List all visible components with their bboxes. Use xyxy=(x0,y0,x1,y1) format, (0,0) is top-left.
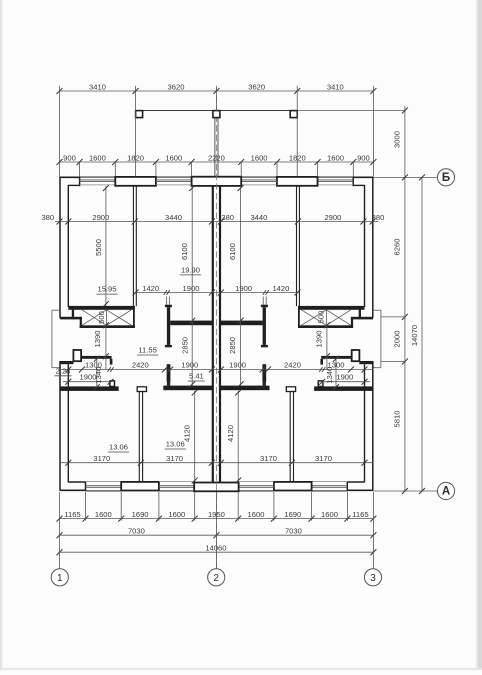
dim column right 3000-6260-2000-5810 xyxy=(404,107,406,492)
svg-text:19.90: 19.90 xyxy=(181,266,200,275)
svg-text:11.55: 11.55 xyxy=(138,346,156,355)
svg-text:1: 1 xyxy=(57,573,63,584)
canopy post left xyxy=(136,111,143,118)
dim row top 3410-3620 xyxy=(60,90,374,92)
svg-text:1900: 1900 xyxy=(181,361,198,370)
svg-text:1165: 1165 xyxy=(64,510,80,519)
svg-text:1900: 1900 xyxy=(183,284,200,293)
svg-text:3440: 3440 xyxy=(250,213,267,222)
svg-text:3000: 3000 xyxy=(392,131,401,148)
svg-text:2.23: 2.23 xyxy=(56,366,71,375)
wall pier top center 2220 xyxy=(192,177,242,186)
svg-text:380: 380 xyxy=(221,213,234,222)
svg-text:7030: 7030 xyxy=(285,527,302,536)
canopy edge line xyxy=(136,110,298,112)
svg-text:2420: 2420 xyxy=(132,361,149,370)
dim row hall 1300-2420-1900 xyxy=(60,369,374,371)
svg-text:1390: 1390 xyxy=(315,331,324,348)
svg-text:14060: 14060 xyxy=(205,543,226,552)
svg-text:1600: 1600 xyxy=(248,510,265,519)
svg-text:1420: 1420 xyxy=(142,284,159,293)
svg-text:3620: 3620 xyxy=(168,82,185,91)
svg-text:13.06: 13.06 xyxy=(109,443,128,452)
dim row bottom rooms 3170 xyxy=(60,462,374,464)
right unit walls (mirrored) xyxy=(221,177,381,491)
door jamb witness middle right xyxy=(262,297,264,305)
svg-text:2: 2 xyxy=(213,573,219,584)
porch divider xyxy=(214,118,216,177)
svg-text:900: 900 xyxy=(357,153,370,162)
dim row top facade 900-1600 xyxy=(60,161,374,163)
wall pier bottom center 1950 xyxy=(194,483,238,492)
svg-text:1820: 1820 xyxy=(289,153,306,162)
svg-text:3: 3 xyxy=(370,573,376,584)
svg-text:1690: 1690 xyxy=(132,510,149,519)
svg-text:1600: 1600 xyxy=(89,153,106,162)
svg-text:1600: 1600 xyxy=(165,153,182,162)
svg-text:1600: 1600 xyxy=(95,510,112,519)
dim 6100-2850 right xyxy=(240,186,242,386)
dim row middle 1420-1900 xyxy=(135,292,299,294)
svg-text:6260: 6260 xyxy=(392,239,401,256)
svg-text:3440: 3440 xyxy=(165,213,182,222)
svg-text:1340: 1340 xyxy=(325,367,334,384)
door jamb witness middle left xyxy=(166,297,168,305)
witness lines bottom axes xyxy=(59,492,61,569)
axis circle 1 xyxy=(51,569,68,586)
svg-text:1600: 1600 xyxy=(251,153,268,162)
dim row bottom facade xyxy=(60,518,374,520)
party wall xyxy=(212,186,214,483)
svg-text:2900: 2900 xyxy=(92,213,109,222)
svg-text:3170: 3170 xyxy=(93,454,110,463)
svg-text:3410: 3410 xyxy=(89,82,106,91)
witness lines top axes xyxy=(59,86,61,177)
dim 4120 left xyxy=(194,391,196,482)
svg-text:500: 500 xyxy=(316,311,325,324)
axis line A xyxy=(373,490,437,492)
dim column right 14070 xyxy=(421,177,423,491)
svg-text:1900: 1900 xyxy=(229,361,246,370)
svg-text:7030: 7030 xyxy=(128,527,145,536)
dim 1390-1340 left xyxy=(105,325,107,369)
svg-text:Б: Б xyxy=(442,172,450,184)
canopy post center xyxy=(213,111,220,118)
svg-text:2900: 2900 xyxy=(324,213,341,222)
dim row rooms 380-2900-3440 xyxy=(55,221,379,223)
svg-text:1600: 1600 xyxy=(327,153,344,162)
svg-text:13.06: 13.06 xyxy=(166,440,185,449)
svg-text:3170: 3170 xyxy=(166,454,183,463)
svg-text:3410: 3410 xyxy=(327,82,344,91)
dim row 7030 xyxy=(60,534,374,536)
dim 4120 right xyxy=(237,391,239,482)
svg-text:А: А xyxy=(442,486,450,498)
dim 6100-2850 left xyxy=(191,186,193,386)
svg-text:1900: 1900 xyxy=(235,284,252,293)
dim 1390-1340 right xyxy=(326,325,328,369)
svg-text:900: 900 xyxy=(63,153,76,162)
svg-text:2850: 2850 xyxy=(228,337,237,354)
svg-text:3620: 3620 xyxy=(248,82,265,91)
left unit walls xyxy=(52,177,212,491)
svg-text:2420: 2420 xyxy=(284,361,301,370)
svg-text:6100: 6100 xyxy=(228,243,237,260)
axis circle A xyxy=(437,482,454,499)
axis circle 3 xyxy=(364,569,381,586)
svg-text:2000: 2000 xyxy=(392,331,401,348)
svg-text:3170: 3170 xyxy=(315,454,332,463)
svg-text:15.95: 15.95 xyxy=(97,285,116,294)
dim row wc 1900 left xyxy=(63,381,112,383)
axis circle 2 xyxy=(208,569,225,586)
svg-text:1340: 1340 xyxy=(94,367,103,384)
svg-text:5.41: 5.41 xyxy=(189,372,204,381)
axis 2 dashed line xyxy=(215,96,217,568)
svg-text:1165: 1165 xyxy=(352,510,368,519)
svg-text:14070: 14070 xyxy=(410,325,419,346)
svg-text:1600: 1600 xyxy=(321,510,338,519)
svg-text:6100: 6100 xyxy=(180,243,189,260)
svg-text:2850: 2850 xyxy=(180,337,189,354)
svg-text:4120: 4120 xyxy=(226,425,235,442)
dim 5500 room1 left xyxy=(105,186,107,306)
svg-text:1820: 1820 xyxy=(127,153,144,162)
dim row wc 1900 right xyxy=(321,381,370,383)
svg-text:1390: 1390 xyxy=(93,331,102,348)
photo edge shading xyxy=(0,0,2,670)
svg-text:5500: 5500 xyxy=(94,239,103,256)
canopy post right xyxy=(290,111,297,118)
svg-text:3170: 3170 xyxy=(260,454,277,463)
svg-text:1900: 1900 xyxy=(336,373,353,382)
svg-text:1420: 1420 xyxy=(272,284,289,293)
svg-text:1600: 1600 xyxy=(168,510,185,519)
svg-text:500: 500 xyxy=(97,311,106,324)
axis circle B xyxy=(437,169,454,186)
witness recess right xyxy=(381,316,405,318)
dim row 14060 xyxy=(60,551,374,553)
svg-text:1690: 1690 xyxy=(284,510,301,519)
axis line B xyxy=(373,176,437,178)
svg-text:2220: 2220 xyxy=(208,153,225,162)
svg-text:5810: 5810 xyxy=(392,411,401,428)
svg-text:380: 380 xyxy=(372,213,385,222)
svg-text:380: 380 xyxy=(41,213,54,222)
